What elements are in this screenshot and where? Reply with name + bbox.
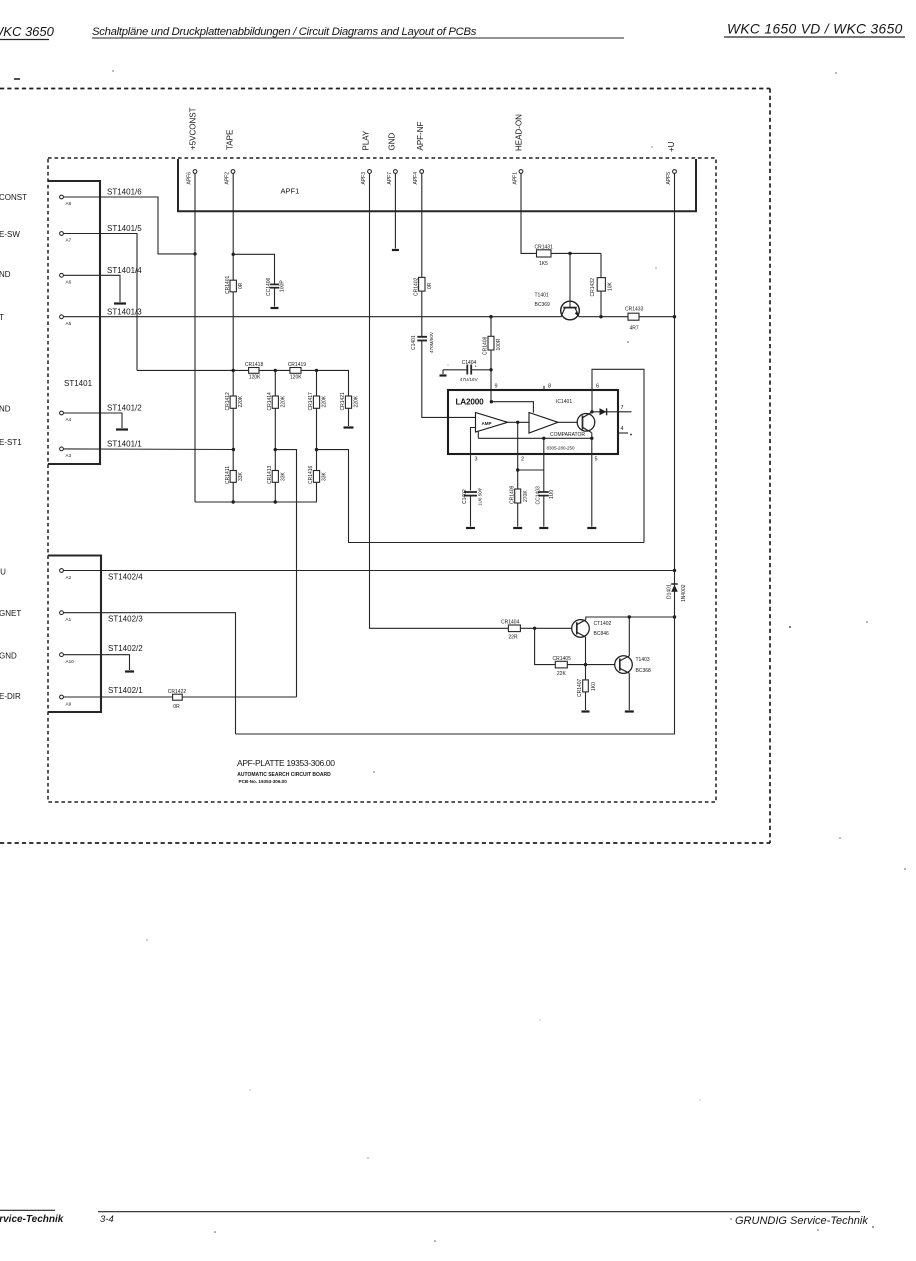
- junction bottom rail/CR1411: [232, 500, 235, 503]
- svg-text:APF-PLATTE 19353-306.00: APF-PLATTE 19353-306.00: [237, 758, 335, 768]
- label ST1402/2: [108, 644, 143, 653]
- svg-text:2: 2: [521, 457, 524, 463]
- pin 8 stub of IC1401: [544, 383, 551, 390]
- svg-text:Service-Technik: Service-Technik: [0, 1214, 64, 1225]
- svg-text:PLAY: PLAY: [361, 130, 370, 151]
- resistor CR1405: [553, 656, 572, 677]
- svg-text:0R: 0R: [173, 704, 180, 710]
- wire ST1402/4 +U row: [64, 570, 675, 572]
- junction pin6/diode/collector: [590, 410, 593, 413]
- junction +U column / rail: [673, 315, 676, 318]
- svg-text:0R: 0R: [427, 282, 433, 289]
- footer page number 3-4: [98, 1212, 860, 1225]
- comparator triangle: [529, 413, 558, 434]
- wire ST1401/5 down to divider row: [64, 234, 137, 371]
- net name +U: [667, 141, 676, 152]
- capacitor CC1403: [535, 486, 555, 527]
- svg-text:AMP: AMP: [482, 421, 492, 426]
- junction row370/CR1417: [315, 369, 318, 372]
- svg-text:10K: 10K: [608, 281, 614, 291]
- svg-text:CR1419: CR1419: [288, 362, 307, 368]
- svg-text:WKC 1650 VD / WKC 3650: WKC 1650 VD / WKC 3650: [727, 22, 903, 37]
- svg-text:33K: 33K: [238, 471, 244, 481]
- label LA2000: [456, 398, 485, 407]
- resistor CR1431: [535, 244, 554, 267]
- capacitor C1402 electrolytic: [462, 486, 482, 526]
- junction feedback/CC1403: [542, 437, 545, 440]
- svg-text:CR1405: CR1405: [553, 656, 572, 662]
- pin A6 of ST1401: [60, 273, 72, 284]
- wire ST1402/2 to ground: [64, 655, 130, 670]
- svg-text:CR1413: CR1413: [267, 465, 273, 484]
- pin APF7: [387, 170, 397, 185]
- amplifier AMP triangle: [476, 413, 508, 433]
- resistor CR1413: [267, 465, 286, 484]
- label ST1401/2: [107, 404, 142, 413]
- resistor CR1412: [225, 392, 244, 411]
- svg-text:4: 4: [621, 426, 624, 432]
- label ST1401: [64, 379, 93, 388]
- connector APF1 outline bracket: [178, 159, 696, 211]
- junction row449/CR1413: [274, 448, 277, 451]
- svg-text:APF4: APF4: [413, 172, 419, 185]
- wire divider bottom rail: [195, 501, 317, 503]
- connector ST1402 box: [48, 556, 101, 713]
- svg-text:AUTOMATIC SEARCH CIRCUIT BOARD: AUTOMATIC SEARCH CIRCUIT BOARD: [237, 772, 331, 778]
- stray pen mark: [14, 78, 20, 80]
- wire pin 5 to ground: [591, 438, 593, 526]
- label ST1401/5: [107, 224, 142, 233]
- wire pin 6 loop to comparator feed: [592, 369, 644, 542]
- svg-text:220K: 220K: [354, 395, 360, 407]
- svg-text:100R: 100R: [496, 338, 502, 350]
- resistor CR1432: [590, 278, 614, 297]
- pin APF1: [513, 170, 523, 185]
- svg-text:120K: 120K: [249, 374, 261, 380]
- svg-text:1K0: 1K0: [591, 682, 597, 691]
- svg-text:100P: 100P: [280, 280, 286, 292]
- resistor CR1433: [625, 307, 644, 332]
- svg-text:A9: A9: [66, 702, 72, 707]
- svg-text:APF1: APF1: [281, 187, 300, 196]
- svg-text:E-ST1: E-ST1: [0, 438, 22, 447]
- net stub label GND: [0, 652, 17, 661]
- label ST1401/6: [107, 187, 142, 196]
- svg-text:GNET: GNET: [0, 609, 21, 618]
- svg-text:CR1402: CR1402: [413, 277, 419, 296]
- net stub label GNET: [0, 609, 21, 618]
- wire ST1401/6 to +5VCONST column: [64, 197, 195, 254]
- label PCB-No. 19353-306.00: [239, 779, 288, 784]
- svg-text:APF7: APF7: [387, 172, 393, 185]
- pin APF6: [187, 170, 197, 185]
- capacitor C1401 electrolytic: [411, 331, 434, 353]
- svg-text:6: 6: [596, 383, 599, 389]
- pin A9 of ST1402: [60, 695, 72, 706]
- svg-text:+5VCONST: +5VCONST: [189, 107, 198, 150]
- capacitor CC1406: [266, 277, 285, 306]
- net stub label E-ST1: [0, 438, 22, 447]
- svg-text:APF3: APF3: [361, 172, 367, 185]
- pin 4 stub: [618, 426, 632, 435]
- label ST1402/3: [108, 615, 143, 624]
- wire 120K row: [137, 369, 249, 371]
- ground (C1404): [440, 374, 447, 376]
- label COMPARATOR: [550, 432, 585, 438]
- svg-text:CR1432: CR1432: [590, 278, 596, 297]
- label ST1402/1: [108, 686, 143, 695]
- svg-text:CR1417: CR1417: [308, 392, 314, 411]
- resistor CR1407: [577, 678, 597, 697]
- net name +5VCONST: [189, 107, 198, 150]
- ground (T1403): [625, 710, 634, 712]
- svg-text:A7: A7: [66, 238, 72, 243]
- wire CR1431 to CR1432: [551, 252, 601, 254]
- wire CR1414 column: [274, 370, 276, 502]
- svg-text:BC369: BC369: [535, 302, 551, 308]
- wire +U column lower / ST1402-3 return: [236, 571, 675, 735]
- label APF-PLATTE 19353-306.00: [237, 758, 335, 768]
- net stub label CONST: [0, 193, 27, 202]
- pin APF2: [225, 170, 235, 185]
- junction CR1404/CR1405: [533, 627, 536, 630]
- junction feedback/emitter: [590, 437, 593, 440]
- junction CR1431 output: [568, 252, 571, 255]
- ground (APF7): [392, 249, 399, 251]
- label AUTOMATIC SEARCH CIRCUIT BOARD: [237, 772, 331, 778]
- diode D1401: [667, 584, 687, 602]
- pin 2 label: [521, 457, 524, 463]
- wire AMP inverting to pin 3: [471, 428, 476, 491]
- svg-text:270K: 270K: [523, 490, 529, 502]
- wire CR1421 to ground: [348, 408, 350, 426]
- svg-text:CR1421: CR1421: [340, 392, 346, 411]
- resistor CR1422: [168, 689, 187, 710]
- resistor CR1418: [245, 362, 264, 381]
- wire CT1402 emitter: [585, 637, 587, 665]
- ground (pin 5): [587, 527, 596, 529]
- wire APF3 PLAY column: [370, 174, 509, 629]
- pin A2 of ST1402: [60, 569, 72, 580]
- label ST1401/3: [107, 307, 142, 316]
- svg-text:A5: A5: [66, 321, 72, 326]
- junction CT1402 emitter/T1403 base: [584, 663, 587, 666]
- svg-text:WKC 3650: WKC 3650: [0, 24, 55, 39]
- footer left Service-Technik: [0, 1210, 64, 1225]
- outer dashed border (right edge): [769, 89, 771, 844]
- svg-text:E-SW: E-SW: [0, 230, 20, 239]
- svg-text:CR1401: CR1401: [225, 275, 231, 294]
- svg-text:220K: 220K: [238, 395, 244, 407]
- ground (CC1406): [271, 307, 279, 309]
- svg-text:22R: 22R: [508, 635, 518, 641]
- svg-text:8: 8: [548, 383, 551, 389]
- label IC1401: [556, 399, 572, 405]
- svg-text:220K: 220K: [322, 395, 328, 407]
- svg-text:ST1402/1: ST1402/1: [108, 686, 143, 695]
- net stub label E-DIR: [0, 692, 21, 701]
- wire branch to CC1406: [233, 254, 274, 283]
- junction ST1401/6 / APF6: [193, 252, 196, 255]
- svg-text:A2: A2: [66, 575, 72, 580]
- svg-text:COMPARATOR: COMPARATOR: [550, 432, 585, 438]
- svg-text:A3: A3: [66, 453, 72, 458]
- wire comparator output: [558, 421, 583, 423]
- net name PLAY: [361, 130, 370, 151]
- svg-text:ND: ND: [0, 405, 11, 414]
- wire CR1409 to ground: [517, 503, 519, 527]
- svg-text:CR1411: CR1411: [225, 466, 231, 484]
- svg-text:47U/16V: 47U/16V: [460, 377, 479, 382]
- svg-text:4R7: 4R7: [630, 325, 639, 331]
- svg-text:ST1401: ST1401: [64, 379, 93, 388]
- svg-text:ST1401/2: ST1401/2: [107, 404, 142, 413]
- svg-text:ST1401/1: ST1401/1: [107, 439, 142, 448]
- junction row370/CR1414: [274, 369, 277, 372]
- transistor T1403: [615, 656, 651, 674]
- diode to pin 7: [592, 408, 632, 415]
- svg-text:9: 9: [495, 383, 498, 389]
- ground (ST1401/2): [116, 428, 128, 430]
- pin APF4: [413, 170, 423, 185]
- pin A1 of ST1402: [60, 611, 72, 622]
- net stub label T: [0, 313, 4, 322]
- wire CR1432 top: [600, 253, 602, 277]
- wire rail to CR1408: [490, 317, 492, 337]
- header model number right "WKC 1650 VD / WKC 3650": [724, 22, 905, 38]
- svg-text:CR1414: CR1414: [267, 392, 273, 411]
- wire T1403 collector: [628, 617, 630, 656]
- label APF1: [281, 187, 300, 196]
- resistor CR1402: [413, 277, 433, 296]
- svg-text:APF2: APF2: [225, 172, 231, 185]
- net name APF-NF: [416, 122, 425, 151]
- svg-text:A4: A4: [66, 417, 72, 422]
- label ST1401/1: [107, 439, 142, 448]
- wire CR1417 column: [316, 370, 318, 502]
- wire pin 2 column: [517, 422, 519, 489]
- wire CR1404 junction down: [535, 628, 556, 664]
- svg-text:8305-280-250: 8305-280-250: [547, 446, 576, 451]
- svg-text:D1401: D1401: [667, 584, 673, 599]
- outer dashed border (bottom edge): [0, 842, 770, 844]
- net name GND: [388, 133, 397, 151]
- wire ST1401/2 to ground: [64, 413, 122, 428]
- svg-text:470M/50V: 470M/50V: [429, 331, 434, 353]
- wire base of T1401: [569, 253, 571, 307]
- svg-text:BC368: BC368: [636, 668, 652, 674]
- transistor T1401: [535, 293, 580, 320]
- wire APF1 HEAD-ON column: [521, 174, 537, 254]
- svg-text:LA2000: LA2000: [456, 398, 485, 407]
- svg-text:A10: A10: [66, 659, 75, 664]
- svg-text:CC1403: CC1403: [535, 486, 541, 505]
- pin A3 of ST1401: [60, 447, 72, 458]
- connector ST1401 box: [48, 181, 100, 464]
- svg-text:120K: 120K: [290, 374, 302, 380]
- junction CR1432 / rail: [599, 315, 602, 318]
- svg-text:CR1409: CR1409: [509, 485, 515, 504]
- wire APF5 +U column: [674, 174, 676, 571]
- svg-text:1N4002: 1N4002: [681, 584, 687, 602]
- wire APF6 +5VCONST column: [194, 174, 196, 503]
- wire AMP feedback node: [478, 431, 592, 439]
- junction CR1408/C1404: [489, 368, 492, 371]
- wire ST1402/1 TAPE-DIR: [64, 696, 297, 698]
- outer dashed border (top edge): [0, 88, 770, 90]
- pin 6 label: [596, 383, 599, 389]
- svg-text:PCB-No. 19353-306.00: PCB-No. 19353-306.00: [239, 779, 288, 784]
- svg-text:33K: 33K: [280, 471, 286, 481]
- op-amp module U1 IC1401 LA2000 box: [448, 390, 618, 454]
- resistor CR1421: [340, 392, 359, 411]
- wire ST1401/3 supply rail (left of T1401): [64, 316, 562, 318]
- inner dashed border (APF board outline): [48, 158, 716, 802]
- svg-text:A1: A1: [66, 617, 72, 622]
- svg-text:+: +: [475, 364, 478, 369]
- resistor CR1401: [225, 275, 244, 294]
- wire row449 jog down to ST1402/1: [275, 450, 296, 697]
- svg-text:GRUNDIG Service-Technik: GRUNDIG Service-Technik: [735, 1215, 868, 1227]
- pin 3 label: [475, 457, 478, 463]
- pin A7 of ST1401: [60, 232, 72, 243]
- footer right GRUNDIG Service-Technik: [735, 1215, 868, 1227]
- svg-text:HEAD-ON: HEAD-ON: [515, 114, 524, 151]
- wire supply rail (right of T1401): [579, 316, 675, 318]
- wire APF2 TAPE column: [232, 174, 234, 503]
- transistor Q internal: [577, 412, 595, 438]
- svg-text:CT1402: CT1402: [594, 621, 612, 627]
- resistor CR1411: [225, 466, 244, 484]
- svg-text:+U: +U: [667, 141, 676, 152]
- net name HEAD-ON: [515, 114, 524, 151]
- svg-text:T1401: T1401: [535, 293, 549, 299]
- label 8305-280-250: [547, 446, 576, 451]
- net name TAPE: [226, 130, 235, 150]
- svg-text:Schaltpläne und Druckplattenab: Schaltpläne und Druckplattenabbildungen …: [92, 26, 477, 38]
- svg-text:5: 5: [595, 457, 598, 463]
- capacitor C1404 electrolytic: [443, 360, 491, 382]
- wire pin 9 internal: [490, 400, 534, 413]
- junction AMP output/pin 2: [516, 421, 519, 424]
- wire APF7 GND column: [394, 174, 396, 249]
- ground (CC1403): [539, 527, 548, 529]
- net stub label ND: [0, 405, 11, 414]
- junction bottom rail/CR1413: [274, 500, 277, 503]
- pin A4 of ST1401: [60, 411, 72, 422]
- svg-text:3-4: 3-4: [100, 1214, 114, 1225]
- svg-text:CC1406: CC1406: [266, 277, 272, 296]
- svg-text:C1401: C1401: [411, 335, 417, 350]
- junction collector rail/+U column: [673, 615, 676, 618]
- ground (CR1407): [582, 710, 590, 712]
- wire CR1432 bottom to rail: [600, 291, 602, 317]
- svg-text:ST1401/5: ST1401/5: [107, 224, 142, 233]
- ground (C1402): [466, 527, 475, 529]
- svg-text:CONST: CONST: [0, 193, 27, 202]
- svg-text:220K: 220K: [280, 395, 286, 407]
- junction row449/CR1416: [315, 448, 318, 451]
- svg-text:CR1418: CR1418: [245, 362, 264, 368]
- svg-text:TAPE: TAPE: [226, 130, 235, 150]
- wire CR1404 to CT1402 base: [520, 627, 576, 629]
- ground (ST1401/4): [114, 302, 126, 304]
- wire row449 to comparator feed: [317, 450, 645, 543]
- svg-text:CR1404: CR1404: [501, 620, 520, 626]
- svg-text:ST1402/4: ST1402/4: [108, 573, 143, 582]
- svg-text:A8: A8: [66, 201, 72, 206]
- ground (ST1402/2): [125, 670, 134, 672]
- header model number left "WKC 3650": [0, 24, 55, 40]
- pin A8 of ST1401: [60, 195, 72, 206]
- svg-text:APF1: APF1: [513, 172, 519, 185]
- svg-text:APF5: APF5: [666, 172, 672, 185]
- wire CR1405 to T1403 base: [567, 664, 620, 666]
- header chapter title: [92, 26, 624, 38]
- svg-text:CR1431: CR1431: [535, 244, 554, 250]
- svg-text:APF6: APF6: [187, 172, 193, 185]
- pin 5 label: [595, 457, 598, 463]
- pin APF3: [361, 170, 371, 185]
- wire CR1419 to CR1421: [301, 370, 349, 396]
- svg-text:3: 3: [475, 457, 478, 463]
- svg-text:CR1407: CR1407: [577, 678, 583, 697]
- wire C1404 to ground: [442, 370, 444, 374]
- ground (CR1421): [344, 426, 354, 428]
- svg-text:CR1408: CR1408: [483, 336, 489, 355]
- svg-text:+U: +U: [0, 568, 6, 577]
- resistor CR1417: [308, 392, 327, 411]
- svg-text:CR1416: CR1416: [308, 465, 314, 484]
- svg-text:T1403: T1403: [636, 657, 650, 663]
- junction collector rail/T1403: [628, 615, 631, 618]
- svg-text:ST1402/2: ST1402/2: [108, 644, 143, 653]
- label ST1401/4: [107, 266, 142, 275]
- svg-text:ST1401/6: ST1401/6: [107, 187, 142, 196]
- wire AMP output: [508, 421, 530, 423]
- wire CR1408 to pin 9: [490, 350, 492, 402]
- transistor CT1402: [572, 620, 612, 638]
- svg-text:ND: ND: [0, 270, 11, 279]
- label ST1402/4: [108, 573, 143, 582]
- svg-text:1U0: 1U0: [549, 490, 555, 499]
- junction TAPE column / CC1406 branch: [232, 253, 235, 256]
- wire ST1402/3 MAGNET: [64, 613, 236, 734]
- junction ST1401/1 / CR1412 column: [232, 448, 235, 451]
- svg-text:A6: A6: [66, 279, 72, 284]
- wire T1403 emitter: [628, 673, 630, 710]
- svg-text:IC1401: IC1401: [556, 399, 572, 405]
- wire ST1401/4 to ground: [64, 275, 120, 302]
- net stub label +U: [0, 568, 6, 577]
- svg-text:CR1412: CR1412: [225, 392, 231, 411]
- wire C1401 to pin 1 of IC1401: [422, 342, 476, 418]
- svg-text:CR1422: CR1422: [168, 689, 187, 695]
- resistor CR1419: [288, 362, 307, 381]
- net stub label ND: [0, 270, 11, 279]
- svg-text:CR1433: CR1433: [625, 307, 644, 313]
- svg-text:7: 7: [621, 405, 624, 411]
- pin APF5: [666, 170, 676, 185]
- resistor CR1414: [267, 392, 286, 411]
- svg-text:T: T: [0, 313, 4, 322]
- resistor CR1409: [509, 485, 529, 504]
- svg-text:1K5: 1K5: [539, 261, 548, 267]
- wire CR1407 leads: [585, 665, 587, 710]
- pin A5 of ST1401: [60, 315, 72, 326]
- svg-text:APF-NF: APF-NF: [416, 122, 425, 151]
- junction CR1408 / rail: [489, 315, 492, 318]
